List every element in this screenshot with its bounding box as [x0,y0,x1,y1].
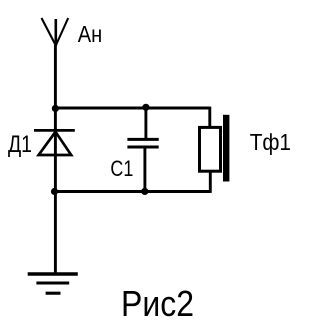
node junction dot bottom-capacitor [141,188,148,195]
ground symbol [28,274,78,293]
node junction dot bottom-left [51,188,58,195]
wire antenna to ground (left vertical) [54,45,57,274]
svg-text:C1: C1 [110,156,133,181]
capacitor C1 top plate [127,138,158,141]
capacitor C1 bottom plate [127,146,158,149]
svg-text:Д1: Д1 [8,131,32,158]
wire earphone top lead [208,107,211,128]
wire bottom rail [55,190,210,193]
diode D1 triangle [39,132,72,155]
node junction dot top-left [52,105,59,112]
svg-text:Рис2: Рис2 [121,283,194,324]
diode D1 cathode bar [34,129,75,132]
svg-text:Ан: Ан [78,21,103,47]
svg-text:Тф1: Тф1 [250,129,291,155]
antenna symbol [42,18,69,46]
wire top rail [55,107,209,110]
node junction dot top-capacitor [142,104,149,111]
capacitor C1 top lead wire [144,107,147,139]
earphone Tf1 body rectangle [200,127,221,171]
wire earphone bottom lead [209,171,212,193]
earphone Tf1 membrane bar [223,115,229,182]
capacitor C1 bottom lead wire [143,147,146,191]
